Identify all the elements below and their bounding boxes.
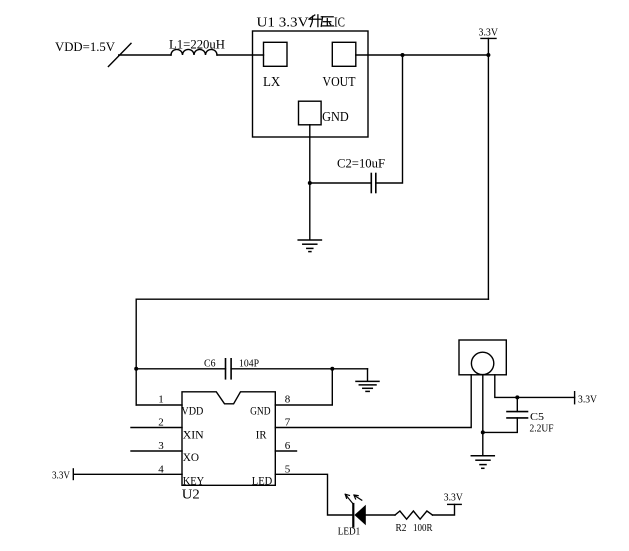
power symbol 3.3V right (575, 392, 598, 406)
CJK glyph ya (pressure) (321, 17, 333, 27)
ground symbol under receiver (471, 456, 494, 469)
svg-text:U1 3.3V: U1 3.3V (257, 16, 309, 31)
capacitor C2 (371, 174, 376, 193)
wire pin 8 GND (275, 369, 332, 405)
IC U1 body (253, 31, 369, 137)
capacitor C5 (507, 412, 528, 418)
wire LED to R2 (366, 514, 395, 516)
junction C5 top (515, 395, 519, 399)
svg-text:C2=10uF: C2=10uF (337, 156, 385, 171)
pin LX pad (264, 42, 288, 66)
wire receiver right leg to 3.3V (495, 375, 575, 398)
svg-text:7: 7 (285, 416, 291, 428)
IR receiver module body (459, 340, 506, 375)
IR receiver lens (471, 352, 493, 374)
wire pin 2 XIN stub (131, 427, 182, 429)
CJK glyph sheng (rise) (309, 15, 321, 27)
wire receiver center leg to ground (482, 375, 484, 456)
svg-text:2: 2 (158, 416, 164, 428)
svg-text:LED1: LED1 (338, 527, 361, 538)
svg-text:LX: LX (263, 74, 281, 89)
power symbol 3.3V top (479, 27, 499, 56)
wire pin 3 XO stub (131, 450, 182, 452)
svg-text:8: 8 (285, 393, 291, 405)
svg-text:104P: 104P (239, 358, 259, 370)
LED LED1 emission arrows (345, 494, 362, 503)
wire 3.3V rail down right side (487, 55, 489, 299)
wire VOUT junction down to C2 (376, 55, 403, 183)
svg-text:6: 6 (285, 440, 291, 452)
svg-text:GND: GND (250, 404, 271, 418)
pin GND pad (299, 101, 322, 125)
svg-text:KEY: KEY (183, 473, 205, 487)
svg-text:XO: XO (183, 450, 200, 464)
svg-text:100R: 100R (413, 523, 433, 534)
inductor L1 (171, 49, 217, 55)
svg-text:IR: IR (256, 428, 267, 442)
svg-text:IC: IC (334, 16, 345, 31)
svg-text:3: 3 (158, 440, 164, 452)
resistor R2 (395, 511, 433, 519)
wire GND pad down (309, 125, 311, 240)
wire rail to C6 (136, 368, 225, 370)
wire VOUT to 3.3V rail (356, 54, 489, 56)
LED LED1 triangle (354, 505, 365, 525)
IC U1 title U1 3.3V boost IC (257, 16, 346, 31)
svg-text:3.3V: 3.3V (479, 27, 499, 39)
power entry slash (108, 43, 131, 66)
power symbol 3.3V at KEY (52, 469, 73, 481)
junction pin8 riser (330, 367, 334, 371)
svg-text:U2: U2 (182, 488, 200, 503)
wire pin 7 IR to receiver (275, 375, 471, 428)
wire pin 4 KEY (74, 473, 182, 475)
svg-text:VOUT: VOUT (323, 74, 357, 89)
ground symbol under U1 (298, 240, 321, 252)
power symbol 3.3V at R2 (444, 492, 463, 504)
wire pin 1 VDD (136, 404, 182, 406)
IC U2 body with notch (182, 392, 275, 486)
wire L1 to LX pin (217, 54, 264, 56)
wire C6 to ground branch (231, 368, 367, 370)
svg-text:C6: C6 (204, 358, 216, 370)
junction C2 on GND line (308, 181, 312, 185)
junction at 3.3V drop (486, 53, 490, 57)
wire R2 to 3.3V (433, 504, 455, 515)
junction rail to C6 (134, 367, 138, 371)
svg-text:2.2UF: 2.2UF (530, 423, 554, 435)
svg-text:XIN: XIN (183, 428, 204, 442)
svg-text:GND: GND (322, 109, 349, 124)
LED LED1 cathode bar (352, 504, 354, 527)
wire pin 6 stub (275, 450, 296, 452)
svg-text:VDD=1.5V: VDD=1.5V (55, 39, 116, 54)
junction C5 bottom (481, 430, 485, 434)
wire rail across to left (136, 298, 488, 300)
svg-text:1: 1 (158, 393, 164, 405)
svg-text:R2: R2 (396, 523, 407, 534)
svg-text:VDD: VDD (181, 404, 203, 418)
wire C2 to GND pin line (310, 182, 372, 184)
svg-text:3.3V: 3.3V (578, 395, 597, 406)
ground symbol right of C6 (356, 369, 379, 392)
wire C5 top lead (516, 397, 518, 411)
wire VDD to L1 (119, 54, 171, 56)
svg-text:LED: LED (252, 473, 273, 487)
wire rail down to U2 VDD (135, 299, 137, 405)
wire pin 5 LED (275, 474, 352, 515)
svg-text:3.3V: 3.3V (52, 470, 70, 481)
wire C5 bottom to ground leg (483, 418, 518, 432)
svg-text:3.3V: 3.3V (444, 492, 463, 503)
pin VOUT pad (332, 42, 356, 66)
capacitor C6 (226, 359, 232, 379)
svg-text:C5: C5 (530, 411, 545, 423)
junction C2 tap on VOUT wire (401, 53, 405, 57)
